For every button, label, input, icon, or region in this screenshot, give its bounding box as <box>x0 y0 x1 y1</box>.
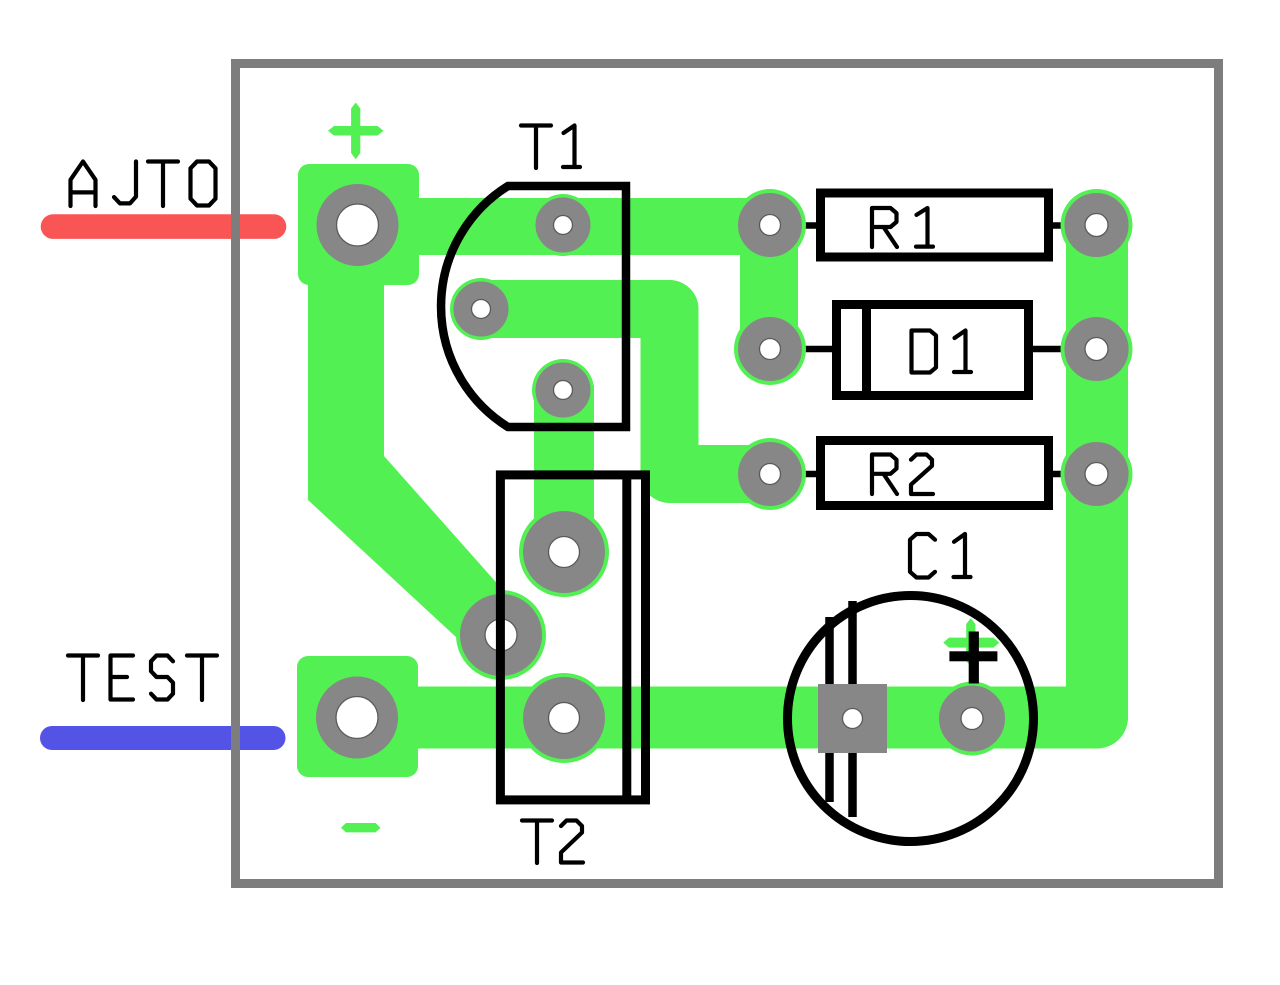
pad R2 pin1 <box>734 438 806 510</box>
label T2 <box>522 821 583 864</box>
diode D1 outline <box>837 304 1029 396</box>
transistor T2 outline <box>500 475 645 800</box>
lead R2 pin2 <box>1049 471 1096 478</box>
lead R1 pin2 <box>1049 222 1096 229</box>
lead R2 pin1 <box>770 471 820 478</box>
wire: T1 base elbow to R2 left <box>481 309 770 474</box>
lead D1 anode <box>770 346 838 353</box>
plus mark (black, C1 silkscreen) <box>949 632 997 684</box>
resistor R1 outline <box>821 193 1049 257</box>
capacitor C1 minus stripe chords <box>830 601 853 817</box>
pad square P- (copper land) <box>297 656 418 777</box>
transistor T1 outline (TO-92) <box>441 186 626 427</box>
plus mark (green, near P+) <box>328 103 384 160</box>
pad D1 pin2 <box>1061 313 1133 385</box>
wire: V+ pad to R1 left (top rail) <box>400 198 770 255</box>
wire AJTO (red net wire) <box>53 214 274 239</box>
lead R1 pin1 <box>770 222 820 229</box>
label C1 <box>910 534 971 578</box>
wire TEST (blue net wire) <box>52 726 274 750</box>
label D1 <box>912 331 972 373</box>
pad square P+ (copper land) <box>298 164 419 285</box>
board outline <box>236 64 1219 884</box>
wire: V+ pad down + diagonal to T2 middle pad <box>308 230 510 650</box>
lead D1 cathode <box>1028 346 1096 353</box>
wire: R1 left down to D1 left <box>740 225 798 349</box>
pad T1 pin2 (middle) <box>450 278 512 340</box>
pad P+ (AJTO terminal) <box>327 194 389 256</box>
wire: T1 emitter down to T2 top <box>534 385 594 552</box>
plus mark (green, C1 polarity) <box>943 618 999 666</box>
pad T1 pin3 (bottom) <box>532 359 594 421</box>
pad R2 pin2 <box>1061 438 1133 510</box>
pad T2 pin3 (bottom) <box>519 673 609 763</box>
label R1 <box>872 208 933 247</box>
label AJTO <box>71 162 216 207</box>
pad T2 pin2 (middle) <box>456 590 546 680</box>
pad R1 pin1 <box>734 189 806 261</box>
label TEST <box>68 656 217 701</box>
wire: bottom rail and right vertical to R1 right <box>357 225 1097 718</box>
label T1 <box>521 126 580 169</box>
minus mark (green, near P-) <box>341 823 381 832</box>
pad T2 pin1 (top) <box>519 507 609 597</box>
pad R1 pin2 <box>1061 189 1133 261</box>
resistor R2 outline <box>821 441 1049 506</box>
pad D1 pin1 <box>734 313 806 385</box>
pad C1 - (square) <box>818 684 887 753</box>
pad T1 pin1 (top) <box>532 194 594 256</box>
pad P- (TEST terminal) <box>326 687 388 749</box>
label R2 <box>872 455 933 495</box>
pad C1 + (round) <box>935 682 1009 756</box>
capacitor C1 outline (electrolytic) <box>788 596 1034 842</box>
